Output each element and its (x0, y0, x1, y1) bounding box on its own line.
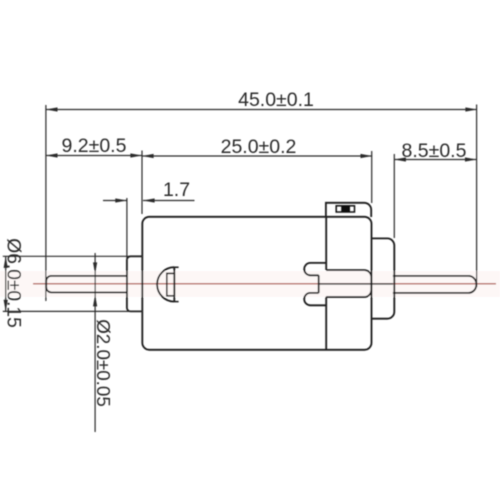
front bearing boss (left, 1.7 long) (127, 256, 143, 311)
front shaft (phi 2.0) (46, 276, 127, 293)
extension line left (shaft tip) (45, 105, 47, 301)
dim 8.5 line (394, 159, 476, 161)
dim phi6 vertical line (5, 256, 7, 311)
rear shaft (393, 276, 476, 293)
25.0 (142, 154, 154, 158)
brush connector vertical (318, 275, 320, 293)
dim phi2 vertical line (94, 253, 96, 432)
rear bearing boss (372, 238, 395, 318)
svg-text:45.0±0.1: 45.0±0.1 (238, 89, 314, 111)
dim 45.0 line (46, 109, 477, 111)
svg-text:Ø6.0±0.15: Ø6.0±0.15 (3, 238, 24, 327)
shaft black centerline through commutator and rear boss (319, 283, 393, 285)
brush bottom tab (304, 293, 326, 305)
svg-text:1.7: 1.7 (163, 179, 190, 201)
phi6 extension lines (3, 255, 143, 257)
9.2 (46, 153, 58, 157)
brush top tab (304, 263, 326, 275)
bearing dome inside can (157, 267, 174, 301)
svg-text:Ø2.0±0.05: Ø2.0±0.05 (93, 319, 114, 407)
extension line front boss left (126, 198, 128, 260)
dimension texts (3, 89, 467, 407)
phi6 inside arrows (4, 256, 8, 268)
commutator (326, 270, 371, 297)
faint pink jpeg band around centerline (0, 271, 500, 297)
extension line rear boss right (393, 154, 395, 238)
dim 1.7 lines (103, 200, 127, 202)
45.0 (46, 107, 58, 111)
extension line right (rear shaft tip) (476, 105, 478, 288)
terminal block on top (326, 203, 371, 217)
dim 9.2 line (46, 155, 142, 157)
svg-text:8.5±0.5: 8.5±0.5 (402, 140, 467, 162)
1.7 outside arrows (115, 198, 127, 202)
red centerline (33, 283, 496, 285)
extension line body left edge (141, 151, 143, 215)
phi2 outside arrows (93, 262, 97, 274)
dim 25.0 line (142, 155, 372, 157)
8.5 (394, 157, 406, 161)
extension line end cap right (371, 151, 373, 203)
svg-text:9.2±0.5: 9.2±0.5 (62, 135, 127, 157)
terminal metal detail (336, 206, 354, 212)
arrowheads (4, 107, 477, 311)
bearing rectangle (167, 273, 175, 295)
can/end-cap separator line (325, 218, 327, 350)
motor body (can + end cap outline) (142, 217, 371, 350)
svg-text:25.0±0.2: 25.0±0.2 (221, 136, 297, 158)
